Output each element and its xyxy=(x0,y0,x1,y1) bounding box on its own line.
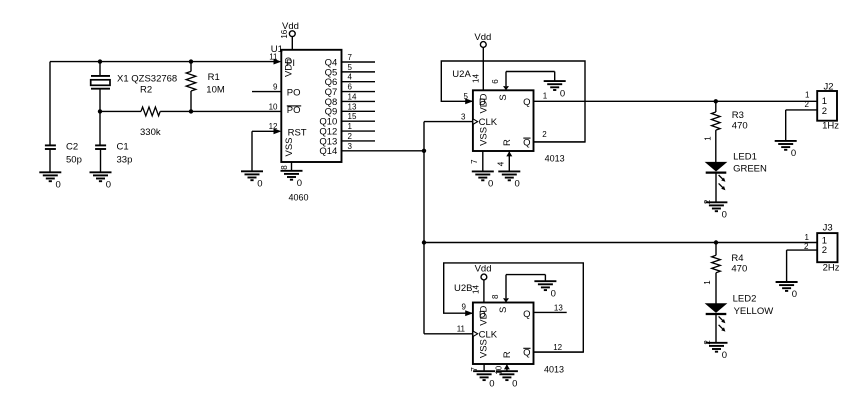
svg-text:U2A: U2A xyxy=(452,69,471,80)
svg-text:Q: Q xyxy=(523,348,530,359)
svg-text:10M: 10M xyxy=(206,84,225,95)
svg-text:VSS: VSS xyxy=(479,127,490,146)
svg-text:RST: RST xyxy=(288,128,307,139)
svg-text:4013: 4013 xyxy=(544,364,564,374)
svg-text:8: 8 xyxy=(280,165,289,170)
svg-text:Q: Q xyxy=(523,137,530,148)
svg-text:Q: Q xyxy=(523,97,530,108)
svg-text:0: 0 xyxy=(257,179,262,190)
svg-text:0: 0 xyxy=(791,148,796,159)
svg-text:0: 0 xyxy=(792,289,797,300)
svg-text:VSS: VSS xyxy=(479,339,490,358)
svg-text:1: 1 xyxy=(804,233,809,242)
svg-text:1Hz: 1Hz xyxy=(822,121,839,132)
svg-text:3: 3 xyxy=(348,142,353,151)
svg-text:0: 0 xyxy=(488,179,493,190)
svg-text:0: 0 xyxy=(56,180,61,191)
svg-text:12: 12 xyxy=(553,343,562,352)
svg-text:J3: J3 xyxy=(823,223,833,234)
svg-text:Q: Q xyxy=(523,309,530,320)
svg-text:0: 0 xyxy=(297,178,302,189)
svg-text:LED2: LED2 xyxy=(733,294,757,305)
svg-text:5: 5 xyxy=(348,63,353,72)
svg-text:0: 0 xyxy=(722,210,727,221)
svg-text:0: 0 xyxy=(489,378,494,389)
svg-text:D: D xyxy=(479,309,486,320)
svg-text:16: 16 xyxy=(280,29,289,38)
svg-text:CLK: CLK xyxy=(479,330,498,341)
svg-text:PO: PO xyxy=(287,105,301,116)
svg-text:11: 11 xyxy=(457,325,466,334)
svg-text:5: 5 xyxy=(464,92,469,101)
svg-text:CLK: CLK xyxy=(479,117,498,128)
svg-text:13: 13 xyxy=(554,303,563,312)
svg-text:X1 QZS32768: X1 QZS32768 xyxy=(117,74,177,85)
svg-text:2: 2 xyxy=(822,106,827,117)
svg-text:10: 10 xyxy=(269,102,278,111)
svg-text:12: 12 xyxy=(269,122,278,131)
svg-text:50p: 50p xyxy=(66,154,82,165)
svg-text:1: 1 xyxy=(703,280,712,285)
svg-text:J2: J2 xyxy=(824,82,834,93)
svg-text:R: R xyxy=(502,351,513,358)
svg-text:0: 0 xyxy=(106,180,111,191)
svg-text:470: 470 xyxy=(732,121,748,132)
svg-text:9: 9 xyxy=(273,82,278,91)
svg-text:2: 2 xyxy=(542,130,547,139)
svg-text:4060: 4060 xyxy=(289,193,309,203)
svg-text:4013: 4013 xyxy=(545,154,565,164)
svg-text:0: 0 xyxy=(722,350,727,361)
svg-text:10: 10 xyxy=(495,365,504,374)
svg-text:0: 0 xyxy=(515,179,520,190)
svg-text:4: 4 xyxy=(496,161,505,166)
svg-text:0: 0 xyxy=(551,288,556,299)
svg-text:R3: R3 xyxy=(732,110,744,121)
svg-text:33p: 33p xyxy=(117,154,133,165)
svg-text:C1: C1 xyxy=(117,142,129,153)
svg-text:LED1: LED1 xyxy=(733,152,757,163)
svg-text:Q14: Q14 xyxy=(319,146,337,157)
svg-text:C2: C2 xyxy=(66,142,78,153)
svg-text:6: 6 xyxy=(491,79,500,84)
svg-text:0: 0 xyxy=(512,378,517,389)
svg-text:S: S xyxy=(498,94,509,100)
svg-text:VSS: VSS xyxy=(284,137,295,156)
svg-text:11: 11 xyxy=(269,53,278,62)
svg-text:3: 3 xyxy=(461,112,466,121)
svg-text:2: 2 xyxy=(348,132,353,141)
svg-text:0: 0 xyxy=(560,88,565,99)
svg-text:1: 1 xyxy=(805,91,810,100)
svg-text:7: 7 xyxy=(470,367,479,372)
svg-text:4: 4 xyxy=(348,73,353,82)
svg-text:PO: PO xyxy=(287,88,301,99)
svg-text:15: 15 xyxy=(348,112,357,121)
svg-text:PI: PI xyxy=(286,58,295,69)
svg-text:YELLOW: YELLOW xyxy=(734,306,774,317)
svg-text:14: 14 xyxy=(472,285,481,294)
svg-text:14: 14 xyxy=(348,92,357,101)
svg-text:7: 7 xyxy=(348,53,353,62)
svg-text:470: 470 xyxy=(731,263,747,274)
svg-text:R: R xyxy=(502,139,513,146)
svg-text:R1: R1 xyxy=(208,72,220,83)
svg-text:330k: 330k xyxy=(140,127,161,138)
svg-text:1: 1 xyxy=(348,122,353,131)
svg-text:1: 1 xyxy=(543,91,548,100)
svg-text:2: 2 xyxy=(822,245,827,256)
svg-text:9: 9 xyxy=(462,303,467,312)
svg-text:7: 7 xyxy=(470,159,479,164)
svg-text:R2: R2 xyxy=(140,85,152,96)
svg-text:8: 8 xyxy=(491,294,500,299)
svg-text:13: 13 xyxy=(348,102,357,111)
svg-text:U2B: U2B xyxy=(454,283,472,294)
svg-text:14: 14 xyxy=(472,74,481,83)
svg-text:S: S xyxy=(498,307,509,313)
svg-text:2Hz: 2Hz xyxy=(823,262,840,273)
svg-text:GREEN: GREEN xyxy=(733,164,767,175)
svg-text:1: 1 xyxy=(704,136,713,141)
svg-text:2: 2 xyxy=(804,242,809,251)
svg-text:2: 2 xyxy=(805,100,810,109)
svg-text:D: D xyxy=(479,97,486,108)
svg-text:Vdd: Vdd xyxy=(475,263,492,274)
svg-text:6: 6 xyxy=(348,83,353,92)
